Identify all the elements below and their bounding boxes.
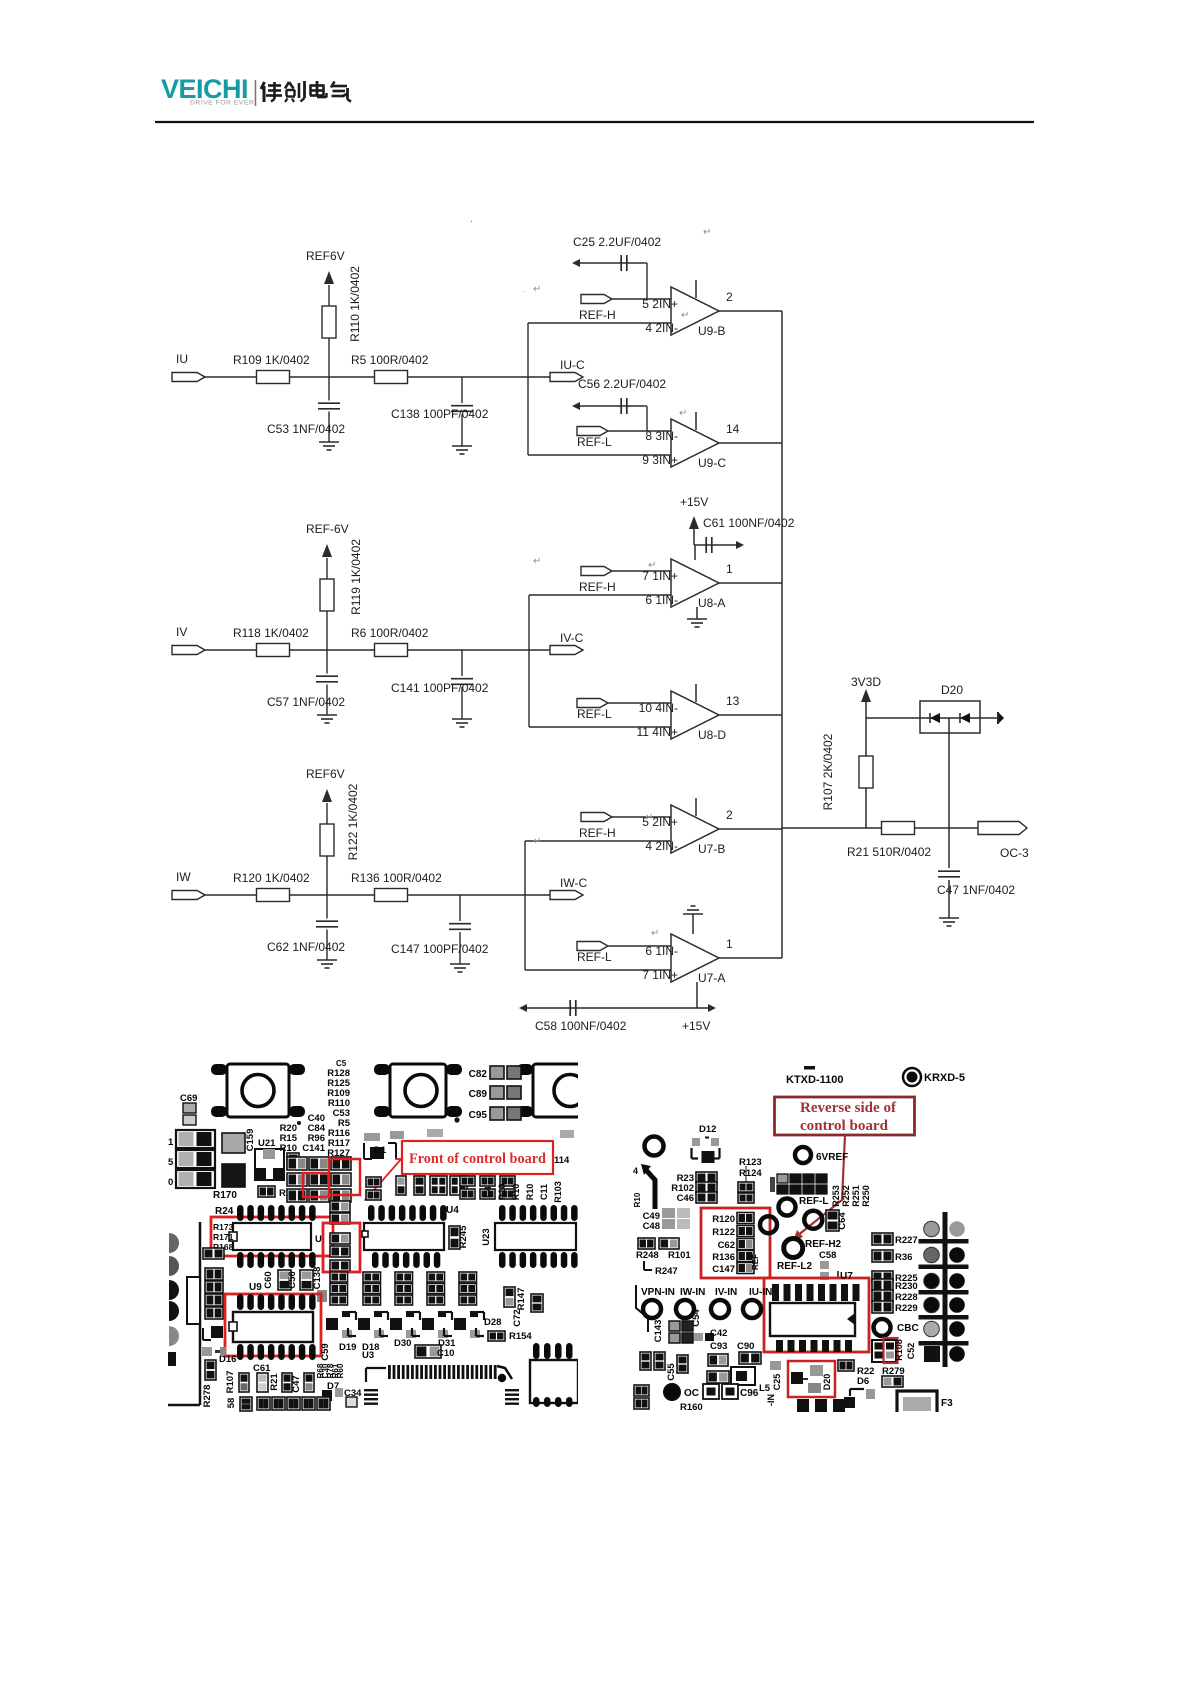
svg-text:R228: R228 [895,1292,918,1303]
svg-text:C141 100PF/0402: C141 100PF/0402 [391,681,489,695]
svg-text:4: 4 [633,1166,638,1176]
svg-text:↵: ↵ [648,560,656,571]
svg-text:IV: IV [176,625,187,639]
svg-text:R124: R124 [739,1168,762,1179]
svg-text:C10: C10 [437,1348,454,1359]
svg-text:6VREF: 6VREF [816,1152,848,1163]
svg-text:C90: C90 [737,1341,754,1352]
svg-text:R136: R136 [712,1252,735,1263]
svg-text:U4: U4 [446,1205,459,1216]
svg-text:D20: D20 [822,1374,832,1391]
svg-text:C93: C93 [710,1341,727,1352]
svg-text:R245: R245 [458,1225,469,1248]
svg-text:58: 58 [226,1398,237,1409]
svg-text:R250: R250 [861,1185,871,1207]
svg-text:U9: U9 [249,1282,262,1293]
svg-text:REF-L: REF-L [577,950,612,964]
svg-text:C62 1NF/0402: C62 1NF/0402 [267,940,345,954]
svg-text:C47: C47 [291,1375,302,1392]
svg-text:C59: C59 [320,1343,331,1360]
svg-text:13: 13 [726,694,740,708]
svg-text:C143: C143 [653,1320,664,1343]
svg-text:C58: C58 [819,1250,836,1261]
svg-text:R160: R160 [680,1402,703,1413]
svg-text:R109 1K/0402: R109 1K/0402 [233,353,310,367]
svg-text:R10: R10 [497,1184,507,1201]
svg-text:Front of control board: Front of control board [409,1151,547,1167]
svg-text:U8-D: U8-D [698,728,726,742]
svg-text:C53 1NF/0402: C53 1NF/0402 [267,422,345,436]
svg-text:REF6V: REF6V [306,767,345,781]
svg-text:R24: R24 [215,1206,234,1217]
svg-text:R278: R278 [202,1385,213,1408]
svg-text:U21: U21 [258,1138,276,1149]
svg-text:C11: C11 [539,1184,549,1200]
svg-text:114: 114 [554,1155,570,1166]
svg-text:C147: C147 [712,1264,735,1275]
svg-text:D12: D12 [699,1124,716,1135]
svg-text:R10: R10 [525,1184,535,1201]
svg-text:C58 100NF/0402: C58 100NF/0402 [535,1019,627,1033]
svg-text:C56 2.2UF/0402: C56 2.2UF/0402 [578,377,666,391]
svg-text:R118 1K/0402: R118 1K/0402 [233,626,309,640]
svg-text:R122: R122 [712,1227,735,1238]
svg-text:R107: R107 [225,1371,236,1394]
svg-text:U9-C: U9-C [698,456,726,470]
svg-text:U9-B: U9-B [698,324,725,338]
svg-text:R154: R154 [509,1331,532,1342]
svg-text:↵: ↵ [703,227,711,238]
svg-text:C138 100PF/0402: C138 100PF/0402 [391,407,489,421]
svg-text:1: 1 [168,1137,174,1148]
svg-text:D19: D19 [339,1342,356,1353]
svg-text:DRIVE FOR EVER: DRIVE FOR EVER [190,100,254,107]
svg-text:Reverse side of: Reverse side of [800,1100,897,1116]
svg-text:IV-IN: IV-IN [715,1287,737,1298]
svg-text:C95: C95 [469,1110,488,1121]
svg-text:14: 14 [726,422,740,436]
svg-text:11 4IN+: 11 4IN+ [637,725,678,739]
svg-text:4 2IN-: 4 2IN- [645,321,678,335]
svg-text:R5 100R/0402: R5 100R/0402 [351,353,429,367]
svg-text:R147: R147 [516,1288,527,1311]
svg-text:IU-C: IU-C [560,358,585,372]
svg-text:-IN: -IN [766,1394,776,1406]
svg-text:2: 2 [726,290,733,304]
svg-text:C25 2.2UF/0402: C25 2.2UF/0402 [573,235,661,249]
svg-text:OC: OC [684,1388,699,1399]
svg-text:REF-H2: REF-H2 [805,1239,842,1250]
svg-text:7 1IN+: 7 1IN+ [642,968,678,982]
svg-text:↵: ↵ [533,556,541,567]
svg-text:1: 1 [726,937,733,951]
svg-text:REF-L2: REF-L2 [777,1261,812,1272]
svg-text:R171: R171 [213,1232,234,1242]
svg-text:5: 5 [168,1157,174,1168]
svg-text:L5: L5 [759,1383,771,1394]
svg-text:C61 100NF/0402: C61 100NF/0402 [703,516,795,530]
svg-text:0: 0 [168,1177,173,1188]
svg-text:↵: ↵ [533,284,541,295]
svg-text:.: . [523,284,526,294]
svg-text:REF-H: REF-H [579,826,616,840]
svg-text:C64: C64 [837,1212,848,1230]
svg-text:C82: C82 [469,1069,488,1080]
svg-text:C56: C56 [287,1271,298,1288]
svg-text:REF-H: REF-H [579,308,616,322]
svg-text:C5: C5 [336,1059,347,1068]
svg-text:REF-H: REF-H [579,580,616,594]
svg-text:R110 1K/0402: R110 1K/0402 [348,266,362,342]
svg-text:C141: C141 [302,1143,325,1154]
svg-text:IU: IU [176,352,188,366]
svg-text:VPN-IN: VPN-IN [641,1287,675,1298]
svg-text:↵: ↵ [679,408,687,419]
svg-text:4 2IN-: 4 2IN- [645,839,678,853]
svg-text:KTXD-1100: KTXD-1100 [786,1074,843,1086]
svg-text:KRXD-5: KRXD-5 [924,1072,965,1084]
svg-text:REF6V: REF6V [306,249,345,263]
svg-text:R252: R252 [841,1185,851,1207]
svg-text:C48: C48 [643,1221,660,1232]
svg-text:R251: R251 [851,1185,861,1207]
svg-text:R6 100R/0402: R6 100R/0402 [351,626,429,640]
svg-text:C57 1NF/0402: C57 1NF/0402 [267,695,345,709]
svg-text:D16: D16 [219,1354,236,1365]
svg-text:C4: C4 [483,1186,493,1198]
svg-text:R119 1K/0402: R119 1K/0402 [349,539,363,615]
svg-text:R253: R253 [831,1185,841,1207]
svg-text:R170: R170 [213,1190,237,1201]
svg-text:IV-C: IV-C [560,631,584,645]
svg-text:C96: C96 [740,1388,759,1399]
svg-text:R10: R10 [511,1184,521,1201]
svg-text:C25: C25 [772,1374,782,1391]
svg-text:D28: D28 [484,1317,501,1328]
svg-text:C62: C62 [718,1240,735,1251]
svg-text:R120: R120 [712,1214,735,1225]
svg-text:IU-IN: IU-IN [749,1287,772,1298]
svg-text:D1: D1 [374,1145,387,1156]
svg-text:F3: F3 [941,1398,953,1409]
svg-text:R103: R103 [553,1181,563,1203]
svg-text:R101: R101 [668,1250,691,1261]
svg-text:R108: R108 [894,1339,904,1361]
svg-text:↵: ↵ [651,928,659,939]
svg-text:REF-6V: REF-6V [306,522,349,536]
svg-text:R248: R248 [636,1250,659,1261]
svg-text:R21 510R/0402: R21 510R/0402 [847,845,931,859]
svg-text:R36: R36 [895,1252,912,1263]
svg-text:R229: R229 [895,1303,918,1314]
svg-text:C55: C55 [666,1363,677,1381]
svg-text:U3: U3 [362,1350,374,1361]
svg-text:C52: C52 [906,1343,916,1360]
svg-text:OC-3: OC-3 [1000,846,1029,860]
svg-text:U: U [315,1234,322,1245]
svg-text:R123: R123 [739,1157,762,1168]
svg-text:IW: IW [176,870,191,884]
svg-text:IW-C: IW-C [560,876,587,890]
svg-text:R247: R247 [655,1266,678,1277]
svg-text:U8-A: U8-A [698,596,725,610]
svg-text:REF-L: REF-L [799,1196,828,1207]
svg-text:U7-B: U7-B [698,842,725,856]
svg-text:6 1IN-: 6 1IN- [645,593,678,607]
svg-text:3V3D: 3V3D [851,675,881,689]
svg-text:R10: R10 [633,1192,642,1207]
svg-text:REF: REF [751,1254,760,1270]
svg-text:C138: C138 [312,1267,323,1290]
svg-text:D6: D6 [857,1376,869,1387]
svg-text:.: . [470,213,473,225]
svg-text:R60: R60 [336,1363,345,1378]
svg-text:U23: U23 [481,1228,492,1245]
svg-text:R107 2K/0402: R107 2K/0402 [821,733,835,810]
svg-text:9 3IN+: 9 3IN+ [642,453,678,467]
svg-text:R122 1K/0402: R122 1K/0402 [346,783,360,860]
svg-text:REF-L: REF-L [577,707,612,721]
svg-text:C60: C60 [263,1271,274,1288]
svg-text:↵: ↵ [681,310,689,321]
svg-text:C89: C89 [469,1089,488,1100]
svg-text:C147 100PF/0402: C147 100PF/0402 [391,942,489,956]
svg-text:REF-L: REF-L [577,435,612,449]
svg-text:C72: C72 [512,1309,523,1326]
svg-text:control board: control board [800,1118,889,1134]
svg-text:D30: D30 [394,1338,411,1349]
svg-text:R136 100R/0402: R136 100R/0402 [351,871,442,885]
svg-text:R230: R230 [895,1281,918,1292]
svg-text:R173: R173 [213,1222,234,1232]
svg-text:R227: R227 [895,1235,918,1246]
svg-text:2: 2 [726,808,733,822]
svg-text:+15V: +15V [680,495,708,509]
svg-text:↵: ↵ [533,836,541,847]
svg-text:C42: C42 [710,1328,727,1339]
svg-text:U7: U7 [840,1271,853,1282]
svg-text:+15V: +15V [682,1019,710,1033]
svg-text:C47 1NF/0402: C47 1NF/0402 [937,883,1015,897]
svg-text:R120 1K/0402: R120 1K/0402 [233,871,310,885]
svg-text:CBC: CBC [897,1323,919,1334]
svg-text:1: 1 [726,562,733,576]
svg-text:R21: R21 [269,1373,280,1391]
svg-text:R10: R10 [280,1143,297,1154]
svg-text:U7-A: U7-A [698,971,725,985]
svg-text:↵: ↵ [645,812,653,823]
svg-text:C46: C46 [677,1193,694,1204]
svg-text:C159: C159 [245,1129,256,1152]
svg-text:D20: D20 [941,683,963,697]
svg-text:IW-IN: IW-IN [680,1287,705,1298]
